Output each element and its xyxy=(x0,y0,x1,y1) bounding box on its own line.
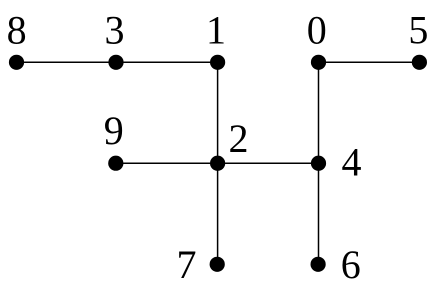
svg-text:4: 4 xyxy=(342,140,362,185)
node 3 xyxy=(105,8,125,70)
wire edge 9-2 xyxy=(116,162,218,164)
svg-text:7: 7 xyxy=(177,242,197,284)
wire edge 1-2 xyxy=(217,62,219,163)
node 4 xyxy=(311,140,362,185)
wire edge 3-1 xyxy=(116,61,218,63)
svg-text:5: 5 xyxy=(408,8,428,53)
svg-text:0: 0 xyxy=(307,8,327,53)
node 1 xyxy=(206,8,226,70)
wire edge 2-7 xyxy=(217,163,219,264)
wire edge 8-3 xyxy=(17,61,117,63)
svg-text:1: 1 xyxy=(206,8,226,53)
node 6 xyxy=(311,242,361,284)
wire edge 0-4 xyxy=(318,62,320,163)
node 7 xyxy=(177,242,225,284)
svg-text:2: 2 xyxy=(229,116,249,161)
svg-text:8: 8 xyxy=(7,8,27,53)
wire edge 4-6 xyxy=(318,163,320,264)
wire edge 2-4 xyxy=(218,162,319,164)
node 5 xyxy=(408,8,428,70)
node 9 xyxy=(104,108,124,171)
node 2 xyxy=(210,116,249,171)
node 0 xyxy=(307,8,327,70)
wire edge 0-5 xyxy=(319,61,420,63)
svg-text:6: 6 xyxy=(341,242,361,284)
node 8 xyxy=(7,8,27,70)
svg-text:3: 3 xyxy=(105,8,125,53)
svg-text:9: 9 xyxy=(104,108,124,153)
